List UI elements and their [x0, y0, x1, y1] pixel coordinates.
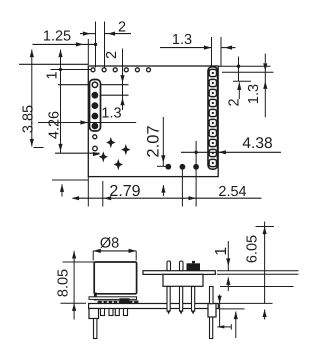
svg-text:1: 1: [213, 247, 230, 256]
right stub above bar: [210, 287, 214, 304]
connector J1 (left header): [90, 80, 101, 132]
svg-text:2.79: 2.79: [109, 183, 140, 200]
pcb outline (top view): [88, 66, 218, 177]
svg-text:2.54: 2.54: [218, 184, 246, 200]
can left lead stub: [94, 293, 97, 301]
long pin left: [94, 319, 97, 339]
svg-text:3.85: 3.85: [21, 105, 37, 133]
small holes below connector J1: [93, 135, 97, 139]
svg-text:2: 2: [226, 98, 242, 106]
svg-text:1: 1: [44, 71, 60, 79]
svg-text:2: 2: [104, 51, 120, 59]
svg-text:6.05: 6.05: [245, 235, 261, 263]
extension lines left of pcb: [19, 63, 88, 65]
solder teeth row: [98, 301, 138, 303]
long pin right: [210, 317, 213, 339]
svg-text:4.38: 4.38: [242, 135, 272, 152]
pad dots row: [165, 164, 171, 170]
right end tab: [208, 304, 216, 318]
bottom extension lines: [87, 177, 89, 207]
leader lines left: [38, 122, 136, 124]
top row holes: [91, 68, 95, 72]
upright pins on plate: [167, 261, 171, 271]
svg-text:8.05: 8.05: [56, 269, 72, 297]
side view: crystal can: [94, 262, 136, 294]
svg-text:1.3: 1.3: [101, 106, 121, 122]
socket legs: [167, 287, 170, 312]
can base flange: [89, 297, 137, 300]
fiducial diamonds: [106, 137, 115, 148]
dimension 1 (pcb bar thickness): [219, 295, 221, 327]
svg-text:1.3: 1.3: [246, 84, 262, 104]
component box on plate: [187, 263, 201, 270]
right side extension lines: [218, 65, 271, 67]
svg-text:Ø8: Ø8: [100, 236, 119, 252]
daughter plate: [143, 271, 215, 275]
svg-text:1.3: 1.3: [172, 32, 192, 48]
right side extension lines: [217, 270, 299, 272]
pin shoulders: [89, 309, 99, 319]
pcb bar (side view): [89, 304, 219, 309]
svg-text:1.25: 1.25: [43, 29, 71, 45]
connector J2 (right header): [208, 67, 218, 169]
socket block: [163, 274, 203, 286]
svg-text:2.07: 2.07: [144, 125, 162, 157]
